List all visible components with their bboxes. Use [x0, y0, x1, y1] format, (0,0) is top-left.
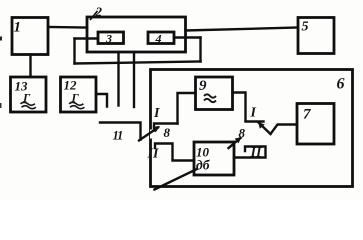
block 1 — [12, 18, 48, 55]
wire from box 3 left through box 2 edge — [75, 37, 99, 39]
block 5 — [298, 18, 334, 54]
svg-text:I: I — [250, 106, 257, 121]
arrowhead label 8 arrow — [235, 137, 242, 143]
svg-text:4: 4 — [155, 32, 162, 46]
right position II contact — [234, 147, 266, 158]
svg-text:6: 6 — [337, 76, 345, 93]
svg-text:II: II — [147, 147, 159, 162]
label 8 arrow right — [229, 138, 241, 148]
svg-text:1: 1 — [14, 20, 22, 36]
left position II contact — [155, 144, 194, 161]
line 11 wire — [100, 123, 141, 140]
left switch blade — [139, 128, 158, 141]
svg-text:9: 9 — [199, 78, 207, 94]
block 12 — [61, 77, 97, 112]
box 6 — [151, 70, 353, 187]
arrowhead right blade — [258, 122, 265, 129]
approx symbol box 9 — [204, 94, 216, 102]
hanging wire B from box 2 bottom — [133, 52, 135, 107]
long horizontal wire — [75, 62, 201, 64]
svg-text:5: 5 — [302, 20, 309, 35]
box 6 edge gap at left switch — [150, 130, 153, 139]
wire to box 4 right — [174, 36, 201, 38]
box 9 — [196, 77, 233, 110]
svg-text:11: 11 — [113, 129, 123, 143]
block 7 — [297, 104, 334, 145]
generator symbol box 12 — [69, 91, 84, 109]
right position I contact — [246, 120, 264, 122]
svg-text:дб: дб — [196, 158, 211, 173]
right switch common to block 7 — [271, 125, 298, 135]
generator symbol box 13 — [21, 91, 36, 109]
wire 1 to 13 — [29, 55, 31, 78]
left position I contact — [154, 124, 178, 131]
wire down at x74 — [73, 39, 75, 64]
box 4 — [148, 32, 174, 44]
label 2 slash — [91, 12, 98, 20]
wire from block 12 right — [96, 94, 107, 107]
arrowhead left blade — [153, 126, 161, 132]
wire 2 to 5 — [186, 28, 299, 31]
svg-text:3: 3 — [105, 32, 112, 46]
wire box 9 left — [178, 93, 196, 124]
wire box 9 right — [233, 93, 246, 121]
right switch blade — [259, 123, 271, 135]
svg-text:8: 8 — [164, 125, 171, 140]
edge artifact marks — [0, 37, 2, 41]
wire up at x200 — [199, 38, 201, 62]
svg-text:2: 2 — [95, 4, 103, 19]
hanging wire A from box 2 bottom — [117, 52, 119, 106]
svg-text:7: 7 — [303, 107, 311, 123]
box 2 — [87, 17, 186, 52]
box 10 — [194, 142, 234, 175]
svg-text:I: I — [153, 106, 160, 121]
block 13 — [11, 77, 47, 112]
wire 1 to 2 — [48, 26, 87, 29]
svg-text:8: 8 — [239, 126, 246, 141]
svg-text:II: II — [250, 146, 262, 161]
box 3 — [98, 32, 124, 44]
variable slash box 10 — [155, 169, 198, 190]
